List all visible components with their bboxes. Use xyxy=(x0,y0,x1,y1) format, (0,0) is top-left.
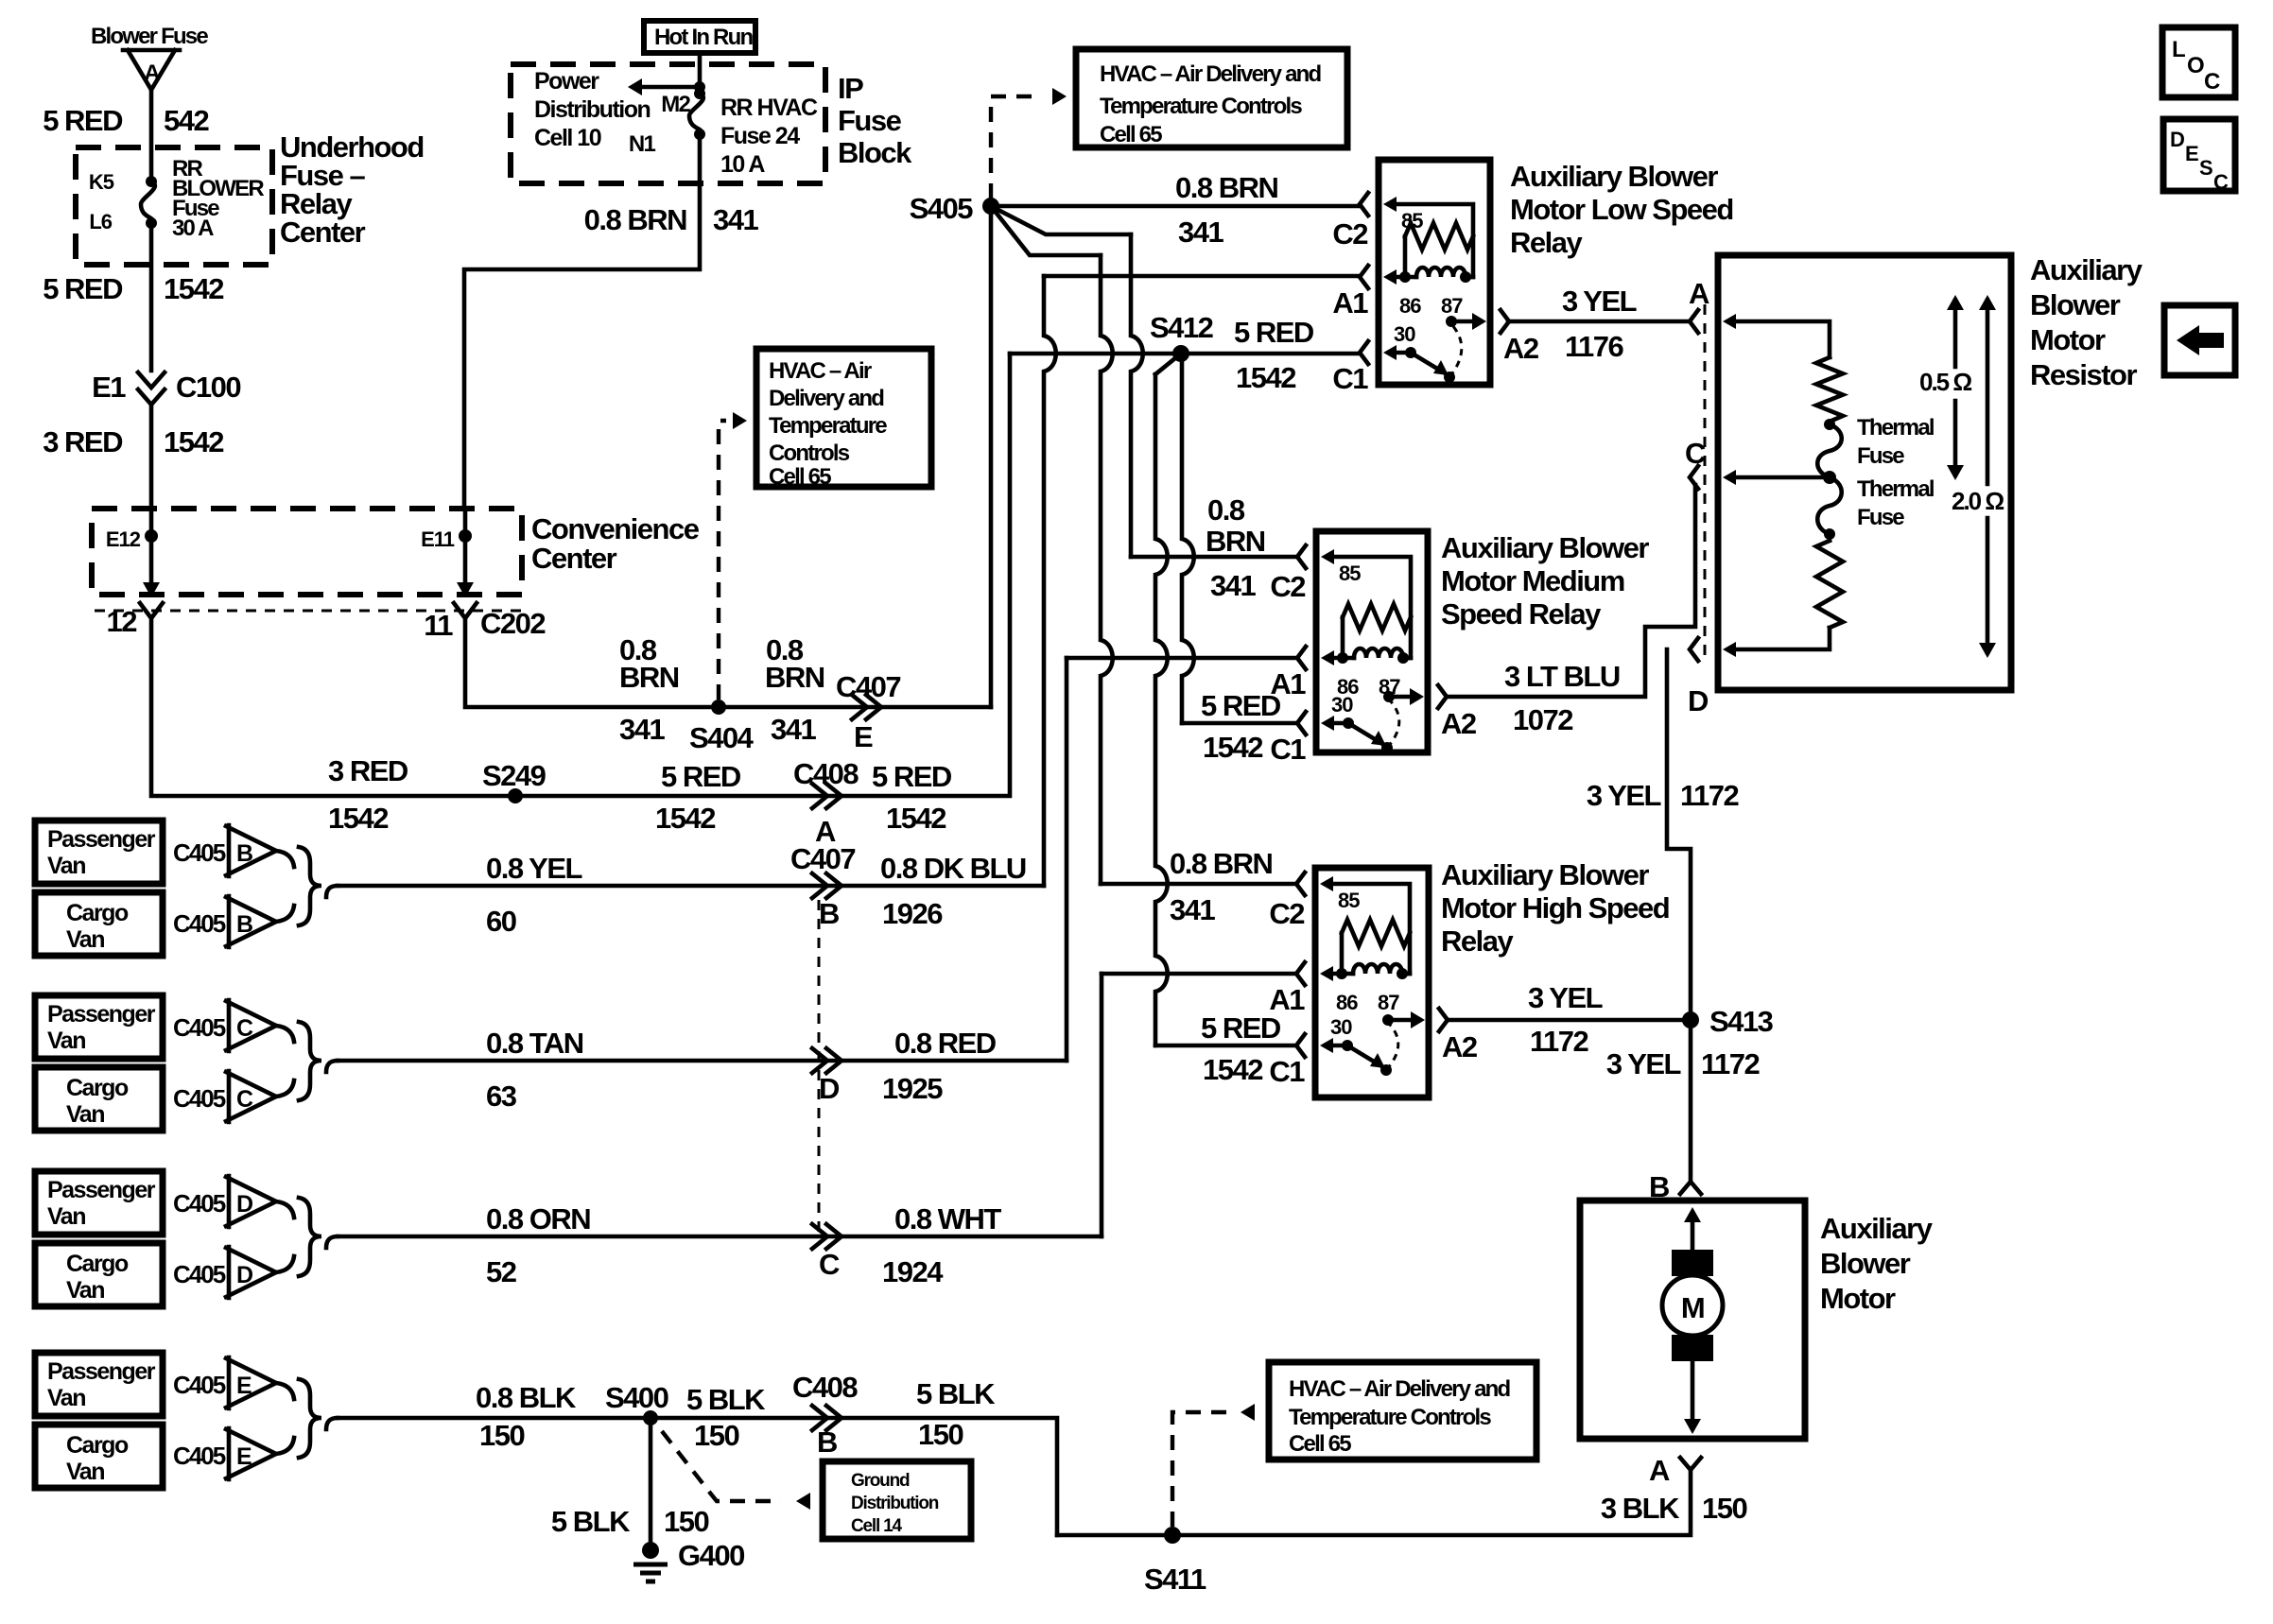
relay medium speed K2 pin A1 terminal xyxy=(1297,647,1306,669)
svg-text:D: D xyxy=(819,1072,840,1105)
relay medium speed K2 switch throw dashed arc xyxy=(1387,700,1399,748)
svg-text:Van: Van xyxy=(66,1277,104,1304)
relay high speed K3 pin A1 terminal xyxy=(1296,962,1305,985)
svg-text:B: B xyxy=(819,897,839,930)
wire 0.8 TAN 63 / 0.8 RED 1925 to medium relay A1 xyxy=(338,1059,1067,1063)
ground G400 xyxy=(642,1542,659,1559)
thermal fuse 2 xyxy=(1817,477,1842,534)
svg-text:Van: Van xyxy=(47,1385,85,1411)
LOC legend box xyxy=(2162,27,2235,97)
svg-text:C405: C405 xyxy=(173,1013,226,1042)
svg-text:1542: 1542 xyxy=(1203,731,1262,764)
svg-text:Van: Van xyxy=(66,1459,104,1485)
svg-text:Van: Van xyxy=(47,853,85,879)
svg-text:Auxiliary: Auxiliary xyxy=(2030,253,2143,286)
auxiliary blower motor resistor box xyxy=(1718,255,2011,690)
svg-text:E: E xyxy=(236,1443,252,1470)
dashed reference from S405 to HVAC controls xyxy=(991,96,1040,199)
svg-text:Center: Center xyxy=(531,542,617,575)
2.0 ohm measurement arrow xyxy=(1986,301,1990,484)
splice S400 xyxy=(643,1410,658,1425)
HVAC - Air Delivery and Temperature Controls Cell 65 box (top) xyxy=(1076,49,1347,147)
svg-text:30 A: 30 A xyxy=(172,216,214,241)
Hot In Run power tag box xyxy=(644,21,755,53)
relay medium speed K2 coil feed from 85 xyxy=(1321,549,1334,564)
svg-text:C1: C1 xyxy=(1270,733,1306,766)
svg-text:3 YEL: 3 YEL xyxy=(1587,779,1661,812)
relay low speed K1 box xyxy=(1379,160,1490,385)
svg-text:Motor High Speed: Motor High Speed xyxy=(1441,891,1669,924)
svg-text:N1: N1 xyxy=(629,131,656,157)
dashed reference from S404 to HVAC controls xyxy=(719,421,726,700)
wire 3 YEL 1176 low relay A2 to resistor A xyxy=(1508,320,1690,324)
svg-text:5 RED: 5 RED xyxy=(43,272,123,305)
svg-text:Van: Van xyxy=(66,926,104,953)
relay medium speed K2 pin C1 terminal (30) xyxy=(1297,712,1306,734)
svg-text:Blower: Blower xyxy=(2030,288,2121,321)
svg-text:150: 150 xyxy=(918,1418,963,1451)
svg-text:E: E xyxy=(236,1373,252,1399)
Power Distribution reference arrow xyxy=(694,81,705,93)
svg-text:Power: Power xyxy=(534,68,599,95)
connector block Passenger Van (group D) xyxy=(35,1171,163,1235)
auxiliary blower motor box xyxy=(1580,1201,1805,1439)
node E12 xyxy=(145,529,158,543)
fuse RR BLOWER Fuse 30 A xyxy=(146,176,157,187)
motor brush (bottom) xyxy=(1672,1335,1713,1361)
connector block Passenger Van (group E) xyxy=(35,1353,163,1416)
svg-text:C408: C408 xyxy=(793,757,859,790)
svg-text:C1: C1 xyxy=(1269,1055,1305,1088)
svg-text:5 RED: 5 RED xyxy=(43,104,123,137)
svg-text:1924: 1924 xyxy=(882,1255,944,1288)
splice S413 xyxy=(1682,1011,1699,1028)
svg-text:Distribution: Distribution xyxy=(851,1494,939,1513)
svg-text:Cell 65: Cell 65 xyxy=(1100,122,1162,147)
svg-text:3 YEL: 3 YEL xyxy=(1606,1047,1681,1080)
svg-text:C407: C407 xyxy=(836,670,900,703)
splice brace merging C405 C wires xyxy=(276,1026,294,1042)
svg-text:3 BLK: 3 BLK xyxy=(1601,1492,1680,1525)
relay high speed K3 pin C2 terminal xyxy=(1296,872,1305,895)
wire 5 RED 542 xyxy=(149,90,154,181)
resistor connector dashed line xyxy=(1704,304,1707,662)
svg-text:3 RED: 3 RED xyxy=(328,754,408,787)
relay medium speed K2 box xyxy=(1316,531,1428,752)
svg-text:52: 52 xyxy=(486,1255,516,1288)
connector C100 pin E1 xyxy=(138,372,165,405)
relay low speed K1 contact 87 output xyxy=(1446,316,1457,327)
svg-text:Auxiliary Blower: Auxiliary Blower xyxy=(1510,160,1718,193)
svg-text:C: C xyxy=(236,1015,253,1042)
relay high speed K3 switch throw dashed arc xyxy=(1386,1024,1398,1070)
svg-text:30: 30 xyxy=(1330,1015,1352,1039)
IP Fuse Block dashed box xyxy=(511,64,825,183)
svg-text:Temperature Controls: Temperature Controls xyxy=(1100,94,1302,119)
svg-text:BRN: BRN xyxy=(765,661,824,694)
relay low speed K1 pin A1 terminal xyxy=(1360,266,1368,288)
relay low speed K1 coil winding xyxy=(1383,269,1397,285)
relay medium speed K2 coil winding xyxy=(1321,650,1334,665)
dashed reference from S411 to HVAC controls xyxy=(1172,1412,1227,1527)
relay low speed K1 coil feed from 85 xyxy=(1383,197,1397,212)
wire 3 BLK 150 motor A to S411 xyxy=(1057,1470,1691,1535)
svg-text:Speed Relay: Speed Relay xyxy=(1441,597,1602,631)
svg-text:0.5 Ω: 0.5 Ω xyxy=(1919,368,1971,396)
connector C407 pin D xyxy=(812,1048,842,1073)
Ground Distribution Cell 14 box xyxy=(823,1461,971,1539)
relay medium speed K2 contact 87 output xyxy=(1383,691,1395,702)
connector C202 dashed line xyxy=(95,610,522,613)
svg-text:Temperature: Temperature xyxy=(769,413,887,439)
svg-text:1926: 1926 xyxy=(882,897,943,930)
svg-text:0.8 RED: 0.8 RED xyxy=(894,1027,997,1060)
svg-text:Resistor: Resistor xyxy=(2030,358,2137,391)
thermal fuse 1 xyxy=(1817,424,1842,477)
connector C408 pin A xyxy=(812,784,842,808)
svg-text:Delivery and: Delivery and xyxy=(769,386,884,411)
svg-text:5 RED: 5 RED xyxy=(1234,316,1314,349)
svg-text:Passenger: Passenger xyxy=(47,1358,156,1385)
motor armature M xyxy=(1662,1275,1723,1336)
svg-text:5 BLK: 5 BLK xyxy=(916,1377,996,1410)
svg-text:1542: 1542 xyxy=(655,802,715,835)
svg-text:BRN: BRN xyxy=(1206,525,1265,558)
splice S411 xyxy=(1164,1527,1181,1544)
svg-text:S: S xyxy=(2199,156,2212,180)
svg-text:Cell 65: Cell 65 xyxy=(1289,1431,1351,1457)
svg-text:0.8 WHT: 0.8 WHT xyxy=(894,1202,1001,1235)
svg-text:Auxiliary Blower: Auxiliary Blower xyxy=(1441,858,1649,891)
svg-text:HVAC – Air: HVAC – Air xyxy=(769,358,872,384)
relay low speed K1 pin C2 terminal xyxy=(1360,193,1368,216)
svg-text:K5: K5 xyxy=(89,170,114,194)
HVAC - Air Delivery Temperature Controls Cell 65 box (middle) xyxy=(756,349,931,487)
svg-text:3 RED: 3 RED xyxy=(43,425,123,458)
relay low speed K1 coil resistor zigzag xyxy=(1405,223,1473,250)
svg-text:A2: A2 xyxy=(1441,707,1476,740)
wire 3 YEL 1172 resistor D to S413 xyxy=(1667,649,1691,1011)
svg-text:Auxiliary Blower: Auxiliary Blower xyxy=(1441,531,1649,564)
svg-text:1176: 1176 xyxy=(1565,330,1624,363)
svg-text:C1: C1 xyxy=(1332,362,1368,395)
wire 0.8 BRN to high relay C2 xyxy=(991,206,1101,255)
dashed reference from S400 to Ground Distribution xyxy=(662,1431,781,1501)
svg-text:341: 341 xyxy=(1210,569,1256,602)
svg-text:C100: C100 xyxy=(176,371,240,404)
svg-text:60: 60 xyxy=(486,905,516,938)
svg-text:150: 150 xyxy=(1702,1492,1746,1525)
splice S405 xyxy=(982,198,999,215)
svg-text:0.8 BRN: 0.8 BRN xyxy=(1170,847,1272,880)
Underhood Fuse-Relay Center dashed box xyxy=(76,147,272,265)
svg-text:C: C xyxy=(236,1086,253,1113)
svg-text:30: 30 xyxy=(1394,322,1415,346)
svg-text:A: A xyxy=(1649,1454,1670,1487)
svg-text:E12: E12 xyxy=(106,527,141,551)
svg-text:1925: 1925 xyxy=(882,1072,943,1105)
svg-text:542: 542 xyxy=(164,104,208,137)
svg-text:1072: 1072 xyxy=(1513,703,1572,736)
svg-text:S413: S413 xyxy=(1709,1005,1774,1038)
svg-text:C: C xyxy=(2204,69,2220,95)
wire 5 RED 1542 xyxy=(149,223,154,371)
svg-text:C405: C405 xyxy=(173,1260,226,1288)
wire 5 BLK 150 to ground G400 xyxy=(649,1418,653,1548)
relay high speed K3 coil resistor zigzag xyxy=(1342,920,1410,946)
svg-text:S404: S404 xyxy=(689,721,755,754)
connector C407 pin E xyxy=(852,695,881,719)
svg-text:S411: S411 xyxy=(1144,1563,1206,1596)
wire E11 to C202 pin 11 xyxy=(463,509,468,582)
wire 5 RED to high relay C1 xyxy=(1155,354,1181,374)
connector block Cargo Van (group B) xyxy=(35,892,163,956)
svg-text:1542: 1542 xyxy=(164,272,223,305)
connector C407 dashed line xyxy=(818,900,821,1233)
svg-text:C405: C405 xyxy=(173,1084,226,1113)
svg-text:Van: Van xyxy=(47,1028,85,1054)
wire 0.8 YEL 60 / 0.8 DK BLU 1926 to low relay A1 xyxy=(338,884,1044,889)
svg-text:Cargo: Cargo xyxy=(66,1251,129,1277)
svg-text:Cargo: Cargo xyxy=(66,1075,129,1101)
svg-text:0.8: 0.8 xyxy=(1207,493,1245,527)
svg-text:A: A xyxy=(144,60,160,86)
wire 3 LT BLU 1072 medium relay A2 to resistor C xyxy=(1447,485,1695,697)
wire 0.8 ORN 52 / 0.8 WHT 1924 to high relay A1 xyxy=(338,1235,1102,1239)
svg-text:1542: 1542 xyxy=(328,802,388,835)
svg-text:Center: Center xyxy=(280,216,366,249)
svg-text:E11: E11 xyxy=(421,527,455,551)
svg-text:Fuse: Fuse xyxy=(1857,505,1904,530)
svg-text:L: L xyxy=(2172,37,2185,62)
svg-text:341: 341 xyxy=(1170,893,1215,926)
svg-text:1172: 1172 xyxy=(1530,1025,1588,1058)
svg-text:0.8 DK BLU: 0.8 DK BLU xyxy=(880,852,1026,885)
svg-text:M2: M2 xyxy=(661,92,690,117)
svg-text:B: B xyxy=(236,840,252,867)
svg-text:Blower Fuse: Blower Fuse xyxy=(91,24,208,49)
svg-text:Cell 10: Cell 10 xyxy=(534,125,601,151)
svg-text:M: M xyxy=(1681,1291,1704,1324)
svg-text:Passenger: Passenger xyxy=(47,826,156,853)
svg-text:E1: E1 xyxy=(92,371,126,404)
svg-text:Cargo: Cargo xyxy=(66,1432,129,1459)
svg-text:Fuse 24: Fuse 24 xyxy=(720,123,800,149)
relay high speed K3 coil winding xyxy=(1320,966,1333,981)
svg-text:1542: 1542 xyxy=(1236,361,1295,394)
svg-text:C405: C405 xyxy=(173,1189,226,1218)
svg-text:85: 85 xyxy=(1339,561,1361,585)
svg-text:Temperature Controls: Temperature Controls xyxy=(1289,1405,1491,1430)
wire 0.8 BRN 341 through S404 to S405 xyxy=(465,620,991,707)
wire 3 YEL 1172 high relay A2 to S413 xyxy=(1448,1018,1691,1023)
svg-text:Convenience: Convenience xyxy=(531,512,700,545)
svg-text:30: 30 xyxy=(1331,693,1353,717)
svg-text:Cargo: Cargo xyxy=(66,900,129,926)
wire 5 RED to medium relay C1 xyxy=(1182,354,1194,723)
svg-text:C407: C407 xyxy=(790,842,855,875)
svg-text:IP: IP xyxy=(838,72,863,105)
svg-text:A2: A2 xyxy=(1503,332,1538,365)
svg-text:C: C xyxy=(1685,437,1706,470)
relay high speed K3 pin A2 terminal xyxy=(1439,1009,1448,1031)
svg-text:5 BLK: 5 BLK xyxy=(551,1505,631,1538)
splice S249 xyxy=(508,788,523,803)
svg-text:C2: C2 xyxy=(1269,897,1304,930)
svg-text:87: 87 xyxy=(1441,294,1463,318)
svg-text:BRN: BRN xyxy=(619,661,679,694)
relay medium speed K2 pin A2 terminal xyxy=(1438,685,1447,708)
svg-text:C405: C405 xyxy=(173,909,226,938)
relay medium speed K2 pin C2 terminal xyxy=(1297,545,1306,568)
svg-text:D: D xyxy=(1688,684,1709,717)
svg-text:Controls: Controls xyxy=(769,441,850,466)
DESC legend box xyxy=(2163,119,2235,191)
svg-text:0.8 BRN: 0.8 BRN xyxy=(1175,171,1277,204)
svg-text:E: E xyxy=(2185,142,2198,165)
splice brace merging C405 B wires xyxy=(276,851,294,867)
relay high speed K3 contact 87 output xyxy=(1382,1014,1394,1026)
svg-text:Motor: Motor xyxy=(1820,1282,1896,1315)
connector C408 pin B xyxy=(812,1406,842,1430)
connector block Passenger Van (group C) xyxy=(35,995,163,1059)
svg-text:C405: C405 xyxy=(173,1442,226,1470)
wire E12 to C202 pin 12 xyxy=(149,536,154,582)
svg-text:87: 87 xyxy=(1378,991,1399,1014)
fuse RR HVAC Fuse 24 10 A xyxy=(694,88,705,99)
svg-text:Blower: Blower xyxy=(1820,1247,1911,1280)
svg-text:0.8 TAN: 0.8 TAN xyxy=(486,1027,583,1060)
relay high speed K3 box xyxy=(1315,868,1429,1097)
svg-text:Van: Van xyxy=(47,1203,85,1230)
HVAC - Air Delivery and Temperature Controls Cell 65 box (bottom) xyxy=(1269,1362,1536,1460)
svg-text:3 LT BLU: 3 LT BLU xyxy=(1504,660,1620,693)
svg-text:1172: 1172 xyxy=(1701,1047,1760,1080)
svg-text:10 A: 10 A xyxy=(720,151,765,178)
svg-text:D: D xyxy=(236,1262,252,1288)
svg-text:D: D xyxy=(2170,128,2184,151)
svg-text:O: O xyxy=(2187,53,2204,78)
wire 5 RED 1542 S412 bus to relay C1 pins xyxy=(1010,352,1360,356)
svg-text:1542: 1542 xyxy=(164,425,223,458)
svg-text:HVAC – Air Delivery and: HVAC – Air Delivery and xyxy=(1100,61,1321,87)
svg-text:150: 150 xyxy=(694,1419,738,1452)
svg-text:Passenger: Passenger xyxy=(47,1001,156,1028)
svg-text:HVAC – Air Delivery and: HVAC – Air Delivery and xyxy=(1289,1376,1510,1402)
svg-text:Thermal: Thermal xyxy=(1857,476,1934,502)
Convenience Center dashed box xyxy=(92,509,522,595)
connector C407 pin C xyxy=(812,1224,842,1249)
svg-text:Relay: Relay xyxy=(1441,924,1514,958)
LOC arrow box xyxy=(2164,305,2235,375)
relay medium speed K2 coil resistor zigzag xyxy=(1343,604,1411,631)
svg-text:S400: S400 xyxy=(605,1381,668,1414)
svg-text:Thermal: Thermal xyxy=(1857,415,1934,441)
svg-text:C2: C2 xyxy=(1332,217,1367,251)
relay high speed K3 pin C1 terminal (30) xyxy=(1296,1034,1305,1057)
splice S412 xyxy=(1172,345,1189,362)
svg-text:E: E xyxy=(854,720,873,753)
svg-text:11: 11 xyxy=(424,609,453,642)
svg-text:A1: A1 xyxy=(1332,286,1368,320)
svg-text:Van: Van xyxy=(66,1101,104,1128)
svg-text:341: 341 xyxy=(619,713,665,746)
svg-text:B: B xyxy=(236,911,252,938)
svg-text:A1: A1 xyxy=(1269,983,1305,1016)
svg-text:86: 86 xyxy=(1399,294,1421,318)
relay high speed K3 switch blade xyxy=(1320,1038,1333,1053)
svg-text:341: 341 xyxy=(1178,216,1223,249)
svg-text:Fuse: Fuse xyxy=(838,104,902,137)
svg-text:150: 150 xyxy=(479,1419,524,1452)
svg-text:S405: S405 xyxy=(910,192,974,225)
0.5 ohm measurement arrow xyxy=(1953,301,1958,367)
svg-text:Motor Medium: Motor Medium xyxy=(1441,564,1624,597)
wire 3 YEL 1172 S413 to motor B xyxy=(1689,1020,1693,1180)
svg-text:S412: S412 xyxy=(1150,311,1213,344)
svg-text:0.8 BLK: 0.8 BLK xyxy=(476,1381,577,1414)
wire 0.8 BRN 341 from fuse N1 to C202 pin 11 xyxy=(464,134,700,509)
relay low speed K1 pin A2 terminal xyxy=(1501,310,1509,333)
svg-text:C408: C408 xyxy=(792,1371,858,1404)
svg-text:Relay: Relay xyxy=(1510,226,1583,259)
wire 3 RED / 5 RED 1542 from C202 pin 12 to S412 xyxy=(151,354,1010,796)
svg-text:C: C xyxy=(2213,170,2229,194)
svg-text:L6: L6 xyxy=(89,210,112,233)
svg-text:0.8 ORN: 0.8 ORN xyxy=(486,1202,590,1235)
svg-text:3 YEL: 3 YEL xyxy=(1528,981,1603,1014)
svg-text:63: 63 xyxy=(486,1080,517,1113)
svg-text:5 RED: 5 RED xyxy=(1201,689,1281,722)
splice brace merging C405 D wires xyxy=(276,1201,294,1218)
svg-text:A: A xyxy=(1689,277,1709,310)
svg-text:Auxiliary: Auxiliary xyxy=(1820,1212,1934,1245)
svg-text:86: 86 xyxy=(1336,991,1358,1014)
svg-text:G400: G400 xyxy=(678,1539,744,1572)
connector block Cargo Van (group D) xyxy=(35,1243,163,1306)
connector C202 pin 12 terminal xyxy=(140,603,163,618)
relay low speed K1 switch throw dashed arc xyxy=(1449,325,1462,377)
svg-text:3 YEL: 3 YEL xyxy=(1562,285,1637,318)
svg-text:A2: A2 xyxy=(1442,1030,1477,1063)
wire 0.8 BLK / 5 BLK 150 ground wire xyxy=(338,1418,1057,1535)
splice brace merging C405 E wires xyxy=(276,1383,294,1399)
svg-text:1542: 1542 xyxy=(1203,1053,1262,1086)
svg-text:150: 150 xyxy=(664,1505,708,1538)
svg-text:1172: 1172 xyxy=(1680,779,1739,812)
relay high speed K3 coil feed from 85 xyxy=(1320,876,1333,891)
wire 3 RED 1542 xyxy=(149,405,154,529)
wire from Hot In Run to fuse xyxy=(698,53,703,94)
svg-text:341: 341 xyxy=(713,203,758,236)
svg-text:85: 85 xyxy=(1338,889,1360,912)
motor brush (top) xyxy=(1672,1250,1713,1276)
svg-text:Passenger: Passenger xyxy=(47,1177,156,1203)
svg-text:C202: C202 xyxy=(480,607,545,640)
svg-text:1542: 1542 xyxy=(886,802,946,835)
svg-text:Motor Low Speed: Motor Low Speed xyxy=(1510,193,1733,226)
svg-text:S249: S249 xyxy=(482,759,547,792)
svg-text:B: B xyxy=(817,1425,837,1459)
resistor pin C xyxy=(1823,471,1836,484)
relay medium speed K2 switch blade xyxy=(1321,716,1334,731)
relay low speed K1 pin C1 terminal (30) xyxy=(1360,341,1368,364)
splice S404 xyxy=(711,700,726,715)
svg-text:Fuse: Fuse xyxy=(1857,443,1904,469)
svg-text:12: 12 xyxy=(107,605,137,638)
connector C202 pin 11 terminal xyxy=(454,603,477,618)
svg-text:A1: A1 xyxy=(1270,667,1306,700)
